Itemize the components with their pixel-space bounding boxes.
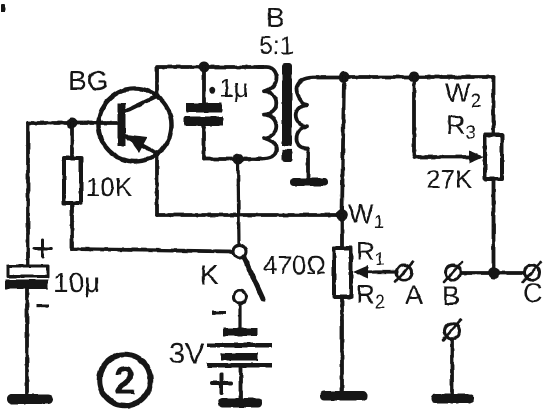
- svg-text:W2: W2: [445, 78, 481, 112]
- wire: W1 rail: [157, 213, 342, 217]
- ground: stub terminal: [431, 394, 474, 403]
- wire: emitter down to W1 rail: [155, 152, 159, 215]
- svg-text:C: C: [523, 278, 543, 308]
- wiper arrow into R3: [469, 151, 484, 164]
- label .1u: [209, 73, 248, 103]
- svg-text:K: K: [200, 259, 219, 290]
- svg-text:A: A: [405, 280, 423, 310]
- transformer T1 secondary winding: [296, 78, 340, 178]
- wire: base lead from left column to transistor base: [28, 121, 118, 125]
- terminal (ground stub below B): [443, 320, 461, 340]
- svg-text:10μ: 10μ: [53, 267, 100, 298]
- svg-text:B: B: [442, 281, 460, 311]
- terminal A: [395, 262, 413, 282]
- node: W1 riser junction: [339, 72, 350, 83]
- svg-text:W1: W1: [348, 199, 384, 233]
- svg-text:3V: 3V: [169, 338, 205, 370]
- resistor R4 (10K): [64, 123, 81, 249]
- node: W2 wiper junction: [409, 72, 420, 83]
- wire: C1 bottom to transformer primary bottom: [204, 157, 262, 161]
- svg-text:10K: 10K: [86, 172, 133, 202]
- wiper: terminal A to R1/R2: [367, 270, 397, 273]
- wire: battery to ground: [239, 368, 243, 398]
- figure number 2 (circled): [100, 355, 151, 406]
- transistor Q1 (BG): [99, 89, 172, 162]
- label plus (battery): [212, 374, 231, 393]
- node: base junction: [67, 118, 78, 129]
- svg-text:2: 2: [114, 360, 136, 403]
- wire: junction down to switch K pivot: [238, 159, 239, 246]
- svg-text:R2: R2: [356, 279, 385, 312]
- node: collector / C1 junction: [199, 62, 210, 73]
- wire: left column down to capacitor C2 plus plate: [26, 123, 30, 266]
- node: W1: [336, 209, 348, 221]
- wire: collector up and right to transformer primary: [157, 67, 263, 96]
- svg-text:R1: R1: [356, 236, 385, 269]
- ground: C2: [7, 394, 53, 404]
- label minus (C2): [36, 304, 49, 307]
- wire: terminal B to terminal C rail: [461, 271, 524, 275]
- svg-text:27K: 27K: [426, 164, 473, 194]
- transformer T1 (B) primary winding: [256, 67, 277, 159]
- stray print mark top-left: [1, 4, 5, 12]
- switch K: [233, 245, 263, 304]
- wire: 10K bottom to switch K: [72, 249, 233, 252]
- terminal B: [444, 262, 462, 282]
- wire: switch lower contact to battery: [238, 304, 241, 330]
- resistor R3 (27K) body: [485, 135, 502, 179]
- capacitor C2 (10u electrolytic): [5, 266, 48, 395]
- svg-text:BG: BG: [68, 65, 108, 96]
- svg-text:1μ: 1μ: [219, 73, 248, 103]
- wire: riser from top rail down to W1 node: [342, 77, 344, 215]
- capacitor C1 (.1u): [184, 67, 223, 159]
- wire: stub terminal to ground: [450, 339, 454, 396]
- svg-text:5:1: 5:1: [259, 32, 294, 60]
- node: primary bottom / switch feed junction: [233, 154, 244, 165]
- svg-text:470Ω: 470Ω: [263, 250, 326, 280]
- ground: transformer secondary: [290, 178, 328, 186]
- label minus (battery): [212, 311, 226, 314]
- wire: secondary top rail to right column: [340, 75, 494, 79]
- battery BT1 (3V): [207, 328, 272, 368]
- node: R3 / C rail junction: [488, 267, 500, 279]
- svg-text:R3: R3: [446, 110, 476, 144]
- potentiometer R1/R2 (470 ohm) body: [334, 215, 351, 392]
- transformer T1 core: [281, 63, 293, 162]
- terminal C: [523, 262, 541, 282]
- wire: R3 bottom to C-rail node: [492, 179, 496, 273]
- ground: battery: [218, 398, 262, 408]
- svg-text:B: B: [266, 2, 285, 33]
- wire: W2 wiper from top rail to R3 arrow: [414, 77, 470, 157]
- label plus (C2): [34, 240, 51, 257]
- wire: top rail corner down to R3: [492, 77, 496, 135]
- ground: R2 bottom: [320, 391, 367, 401]
- wiper arrow into R1/R2: [353, 266, 368, 279]
